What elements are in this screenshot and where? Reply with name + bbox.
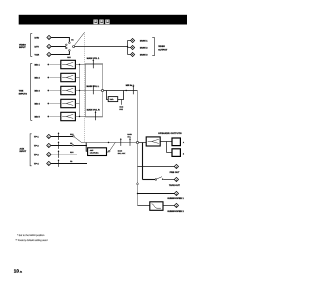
group3 selector wiper [74,137,82,143]
group2 input jack 1 [47,64,49,66]
lowpass filter box [150,202,163,211]
group2 input jack 3 [47,90,49,92]
svg-text:kWh: kWh [110,98,114,101]
svg-text:PB: PB [70,160,73,163]
svg-text:MONI 1: MONI 1 [140,40,148,43]
svg-text:Ja: Ja [20,270,23,273]
group3 input jack 4 [47,161,51,165]
svg-text:TP 4: TP 4 [34,163,39,166]
wire jack2 to fader [50,77,61,79]
pre-out vertical [137,144,139,206]
svg-text:MD 5: MD 5 [35,116,41,119]
svg-text:SUM: SUM [119,106,123,109]
wire filter to jack [163,205,175,207]
wire to power amp [139,142,147,144]
pre out jack [174,164,178,168]
wire jack1 to fader [50,64,61,66]
main volume arrow [129,138,131,146]
svg-text:THE: THE [19,90,24,93]
svg-text:MD 2: MD 2 [35,77,41,80]
wire row3 to selector [51,51,69,54]
monitor jack MONI1 [131,39,135,43]
master wire [104,90,138,92]
svg-text:DTV: DTV [35,46,40,49]
group2 input jack 5 [47,116,49,118]
bypass contact [108,150,110,152]
wire jack5 to fader [50,116,61,118]
bus wires in volume box [86,64,103,66]
eq box output wire [107,151,109,153]
svg-text:PRE: PRE [119,108,123,111]
svg-text:MONI 3: MONI 3 [140,54,148,57]
subwoofer2 jack [174,203,178,207]
bus junction dots [79,64,80,65]
svg-text:INPUT: INPUT [20,150,27,153]
output bracket [152,38,154,56]
group2 input jack 4 [47,103,49,105]
junction dot [137,193,138,194]
svg-text:VOL: VOL [127,135,130,138]
svg-text:TAPE OUT: TAPE OUT [169,184,181,187]
tape out wire left [143,179,156,181]
group3 input jack 1 [47,134,51,138]
svg-text:VIDEO: VIDEO [158,45,165,48]
fader F5 [61,112,76,120]
pre node [136,141,138,143]
selector SW1 wiper [74,32,84,45]
pre out wire [138,166,176,168]
wire row2 to selector [51,46,66,48]
fader F3 [61,86,76,94]
mix bus vertical [79,65,81,117]
title text glyphs [93,20,109,25]
speaker branch vertical [166,142,168,153]
volume arrow V1 [92,59,94,68]
svg-text:MD 3: MD 3 [35,90,41,93]
selector SW1 contacts [69,42,71,44]
svg-text:MAIN VOL 1: MAIN VOL 1 [87,57,100,60]
subwoofer1 wire [138,193,176,195]
group2 input jack 2 [47,77,49,79]
node circle on vertical [137,183,139,185]
tone loop stub right [118,91,124,100]
volume block box [86,64,103,118]
tape out jack [174,177,178,181]
fader F1 [61,60,76,68]
group2 bracket [31,63,33,120]
contact dot on AF line [108,142,109,143]
monitor jack MONI2 [131,46,135,50]
eq loop stub left [86,143,87,152]
bypass wiper [110,143,116,151]
svg-text:A: A [183,141,185,144]
wire down to preamp [137,91,139,143]
speaker terminal A [172,138,180,146]
fader F4 [61,99,76,107]
volume arrow V2 [92,85,94,94]
tap tail [121,100,123,105]
group3 row wires [51,136,73,138]
svg-text:MASt: MASt [118,149,123,152]
wire to speaker A [167,141,173,143]
svg-text:PB: PB [71,38,74,41]
svg-text:SPEAKER OUTPUTS: SPEAKER OUTPUTS [158,132,182,135]
svg-text:10: 10 [14,269,20,274]
svg-text:REC: REC [67,56,71,59]
title bar [19,15,187,25]
svg-text:DVD: DVD [35,37,40,40]
tone box [108,97,118,102]
volume arrow V3 [95,111,97,120]
wires to monitor jacks [128,40,131,42]
svg-text:INPUT: INPUT [19,46,26,49]
balance arrow [120,138,122,146]
node on monitor wire [127,46,128,47]
svg-text:SUBWOOFER 1: SUBWOOFER 1 [167,197,184,200]
main AF line [82,142,137,144]
svg-text:MAIN VOL L: MAIN VOL L [87,85,100,88]
group1 input jacks [47,35,51,39]
svg-text:B: B [183,152,185,155]
svg-text:PRE OUT: PRE OUT [170,171,180,174]
wire to speaker B [167,152,173,154]
svg-text:TP 2: TP 2 [34,145,39,148]
power amp fader [146,137,160,146]
svg-text:* Set to the MAIN position: * Set to the MAIN position [17,234,45,237]
master node [101,89,103,91]
tape out wire right [163,179,175,181]
tape out vertical [142,143,144,180]
monitor branch wire [127,41,129,55]
wire jack4 to fader [50,103,61,105]
svg-text:OUTPUT: OUTPUT [158,49,168,52]
tape out switch [155,179,157,181]
svg-text:MONI 2: MONI 2 [140,47,148,50]
svg-text:SUBWOOFER 2: SUBWOOFER 2 [167,210,184,213]
group3 input jack 3 [47,152,51,156]
speaker wire [160,141,166,143]
svg-text:MR 9s L: MR 9s L [126,84,135,87]
subwoofer2 elbow [138,205,150,207]
svg-text:** Factory default setting use: ** Factory default setting used [16,239,49,242]
selector SW1 pivot [73,46,75,48]
gang dashed line [84,32,86,141]
monitor jack MONI3 [131,53,135,57]
svg-text:AUX: AUX [20,147,25,150]
svg-text:MD 1: MD 1 [35,64,41,67]
svg-text:3.5s/75dBs: 3.5s/75dBs [90,152,99,155]
master volume arrow [132,85,134,94]
wire row1 to selector [51,38,69,42]
dot on master wire [126,90,127,91]
svg-text:BAL AUX: BAL AUX [118,152,126,155]
svg-text:TP 3: TP 3 [34,154,39,157]
group3 input jack 2 [47,143,51,147]
wire jack3 to fader [50,90,61,92]
group3 trim arrows [58,133,60,140]
subwoofer1 jack [174,191,178,195]
svg-text:VIDEO: VIDEO [19,43,26,46]
monitor wire [75,46,128,48]
eq box [88,148,107,156]
fader output wires [75,64,85,66]
group3 bracket [30,134,32,166]
group3 selector contacts [73,135,75,137]
group1 bracket [31,34,33,57]
svg-text:MD 4: MD 4 [35,103,41,106]
fader F2 [61,73,76,81]
svg-text:REC: REC [70,151,74,154]
speaker terminal B [172,149,180,157]
svg-text:MAIN VOL R: MAIN VOL R [87,109,100,112]
tone loop stub left [107,91,109,100]
svg-text:TP 1: TP 1 [34,136,39,139]
svg-text:INPUTS: INPUTS [19,92,28,95]
svg-text:VCR: VCR [35,54,40,57]
